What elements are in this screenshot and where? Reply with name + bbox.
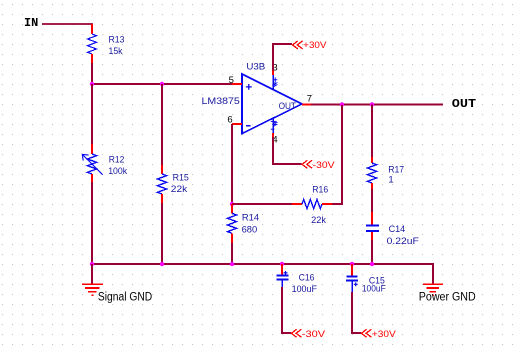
op-amp pin 7 stub bbox=[302, 104, 312, 106]
wire output to OUT bbox=[311, 104, 443, 106]
power flag -30V (bottom) bbox=[291, 329, 326, 340]
svg-text:U3B: U3B bbox=[246, 61, 265, 72]
wire node A down to R12 bbox=[91, 84, 93, 144]
resistor R13 bbox=[88, 24, 97, 64]
svg-text:-30V: -30V bbox=[313, 160, 336, 171]
svg-text:15k: 15k bbox=[109, 46, 123, 57]
op-amp pin 6 stub bbox=[232, 123, 242, 125]
resistor R16 bbox=[292, 200, 333, 209]
capacitor C16 bbox=[276, 264, 288, 288]
ground symbol Signal GND bbox=[82, 284, 103, 295]
svg-text:C14: C14 bbox=[389, 224, 406, 235]
op-amp pin 5 stub bbox=[232, 83, 242, 85]
wire pin 3 to +30V flag bbox=[273, 44, 292, 71]
svg-text:22k: 22k bbox=[311, 215, 326, 226]
wire R14 to ground bus bbox=[231, 243, 233, 265]
junction node C (output/R16) bbox=[340, 102, 344, 106]
resistor R14 bbox=[228, 204, 237, 244]
wire IN to R13 top corner bbox=[42, 24, 92, 25]
svg-text:R15: R15 bbox=[173, 173, 189, 184]
svg-text:Power GND: Power GND bbox=[419, 292, 476, 304]
svg-text:IN: IN bbox=[24, 16, 38, 30]
svg-text:LM3875: LM3875 bbox=[202, 96, 240, 107]
junction ground bus / C16 bbox=[280, 262, 284, 266]
svg-text:R14: R14 bbox=[242, 212, 259, 223]
wire node A to op-amp pin 5 bbox=[92, 83, 232, 85]
op-amp pin 3 power pin bbox=[273, 71, 277, 90]
svg-text:680: 680 bbox=[242, 225, 258, 236]
svg-text:0.22uF: 0.22uF bbox=[387, 236, 419, 247]
svg-text:6: 6 bbox=[227, 114, 232, 125]
svg-text:100k: 100k bbox=[108, 166, 127, 177]
junction ground bus / R12 bbox=[90, 262, 94, 266]
ground bus wire bbox=[92, 264, 433, 284]
junction node D (output/R17) bbox=[370, 102, 374, 106]
svg-text:7: 7 bbox=[307, 93, 312, 104]
op-amp U3B bbox=[242, 74, 302, 134]
wire node E to R16 bbox=[232, 203, 292, 205]
svg-text:+30V: +30V bbox=[372, 329, 397, 340]
resistor R17 bbox=[368, 157, 377, 190]
wire R15 to ground bus bbox=[161, 203, 163, 264]
power flag +30V (bottom) bbox=[361, 329, 396, 340]
junction ground bus / C14 bbox=[370, 262, 374, 266]
wire R17 to C14 bbox=[371, 189, 373, 212]
junction ground bus / C15 bbox=[350, 262, 354, 266]
svg-text:100uF: 100uF bbox=[292, 284, 318, 295]
wire node B down to R15 bbox=[161, 84, 163, 165]
wire R13 to node A bbox=[91, 63, 93, 84]
svg-text:R12: R12 bbox=[109, 155, 125, 166]
power flag +30V (top) bbox=[293, 40, 328, 51]
potentiometer R12 bbox=[82, 144, 102, 183]
svg-text:Signal GND: Signal GND bbox=[98, 291, 152, 303]
svg-text:R13: R13 bbox=[109, 34, 125, 45]
junction node E (feedback/R14/R16) bbox=[230, 202, 234, 206]
junction ground bus / R14 bbox=[230, 262, 234, 266]
capacitor C15 bbox=[346, 264, 358, 293]
capacitor C14 bbox=[366, 212, 379, 241]
junction node A bbox=[90, 82, 94, 86]
power flag -30V (middle) bbox=[302, 160, 335, 171]
wire R12 to ground bus bbox=[91, 182, 93, 264]
wire C16 to -30V flag bbox=[282, 287, 291, 333]
wire R16 to node C bbox=[332, 105, 342, 204]
junction node B bbox=[160, 82, 164, 86]
svg-text:-30V: -30V bbox=[302, 329, 326, 340]
wire op-amp pin 6 feedback down bbox=[231, 124, 233, 204]
wire C15 to +30V flag bbox=[352, 292, 361, 333]
svg-text:R16: R16 bbox=[312, 184, 328, 195]
svg-text:100uF: 100uF bbox=[362, 284, 386, 295]
svg-text:+30V: +30V bbox=[303, 40, 327, 51]
ground symbol Power GND bbox=[423, 284, 443, 295]
wire pin 4 to -30V flag bbox=[273, 137, 302, 164]
svg-text:OUT: OUT bbox=[452, 97, 476, 111]
wire Signal GND drop bbox=[91, 264, 93, 284]
svg-text:C16: C16 bbox=[299, 272, 315, 283]
junction ground bus / R15 bbox=[160, 262, 164, 266]
svg-text:22k: 22k bbox=[171, 184, 188, 195]
svg-text:OUT: OUT bbox=[279, 101, 297, 112]
resistor R15 bbox=[158, 165, 167, 204]
op-amp pin 4 power pin bbox=[271, 119, 277, 138]
svg-text:1: 1 bbox=[388, 174, 393, 185]
wire C14 to ground bus bbox=[371, 240, 373, 264]
wire node D down to R17 bbox=[371, 105, 373, 159]
